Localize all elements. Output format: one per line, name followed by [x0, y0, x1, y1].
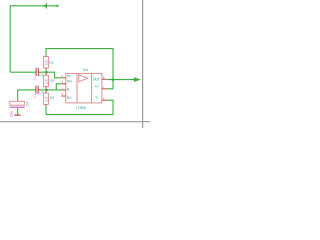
wire R3 bottom to -V rail: [46, 100, 113, 114]
svg-text:10k: 10k: [45, 79, 49, 85]
wire OUT to output arrow: [106, 79, 134, 81]
svg-text:0.1: 0.1: [33, 93, 37, 98]
pin OUT: [93, 76, 107, 82]
svg-text:IN-: IN-: [67, 74, 72, 78]
ground symbol: [14, 114, 20, 116]
wire net A horizontal (input node, y=72.2): [10, 71, 36, 73]
pin BC: [61, 92, 72, 100]
svg-text:0.1: 0.1: [33, 75, 37, 80]
svg-text:-V: -V: [94, 96, 98, 100]
resistor R1: [44, 55, 49, 72]
pin B: [61, 86, 70, 91]
pin +V: [94, 85, 106, 89]
junction J1: [45, 71, 48, 74]
wire R1 top to +V rail: [46, 49, 113, 89]
sheet frame bottom edge: [0, 121, 150, 123]
wire J2 to B pin: [47, 89, 62, 91]
junction OUT/+V rail crossing: [112, 78, 115, 81]
pin -V: [94, 96, 106, 101]
svg-text:DA1: DA1: [83, 68, 89, 72]
svg-text:R1: R1: [49, 61, 53, 65]
svg-text:B: B: [67, 87, 70, 91]
svg-text:C2: C2: [39, 91, 43, 95]
svg-text:100u: 100u: [10, 110, 14, 117]
wire branch to IN+ pin: [56, 84, 61, 90]
resistor R3: [44, 90, 49, 106]
op-amp IC DA1: [66, 73, 102, 103]
svg-text:C1: C1: [39, 73, 43, 77]
resistor R2: [44, 72, 49, 90]
wire J1 to IN- pin: [47, 72, 62, 78]
net arrow tag on top rail: [42, 3, 47, 8]
svg-text:IN+: IN+: [67, 80, 72, 84]
svg-text:LF355M: LF355M: [76, 106, 86, 110]
svg-text:OUT: OUT: [93, 77, 100, 81]
svg-text:C3: C3: [26, 102, 30, 106]
pin IN+: [61, 80, 72, 84]
capacitor C3 (polarized): [10, 99, 25, 115]
junction J2: [45, 89, 48, 92]
wire net B to C3: [17, 90, 19, 99]
wire top rail: [10, 6, 57, 72]
sheet frame right edge: [142, 0, 144, 128]
svg-text:BC: BC: [67, 96, 72, 100]
output arrow: [134, 77, 141, 82]
capacitor C2: [36, 86, 38, 94]
capacitor C1: [36, 68, 38, 76]
wire net B horizontal (bias node, y=89.9): [18, 89, 36, 91]
node top rail end dot: [56, 5, 58, 7]
svg-text:R2: R2: [50, 79, 54, 83]
svg-text:+V: +V: [94, 85, 99, 89]
pin IN-: [61, 74, 71, 78]
svg-text:R3: R3: [50, 96, 54, 100]
svg-text:10k: 10k: [45, 60, 49, 66]
svg-text:10k: 10k: [45, 96, 49, 102]
